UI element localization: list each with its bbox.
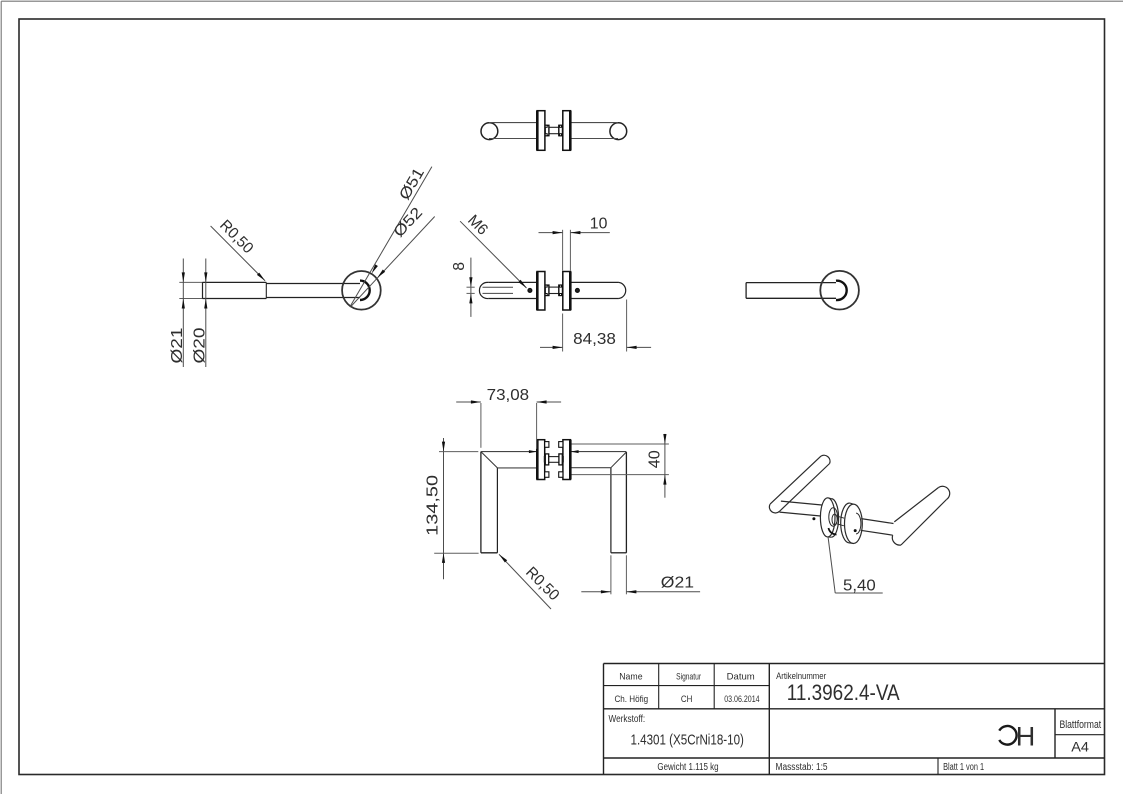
svg-text:Blatt 1 von 1: Blatt 1 von 1 [943,762,984,773]
svg-text:CH: CH [681,694,693,705]
svg-text:Ø21: Ø21 [661,575,694,592]
svg-text:Blattformat: Blattformat [1059,719,1101,731]
svg-text:Massstab: 1:5: Massstab: 1:5 [776,762,828,773]
svg-text:84,38: 84,38 [573,331,616,348]
svg-text:11.3962.4-VA: 11.3962.4-VA [787,680,900,705]
svg-text:Ø20: Ø20 [192,327,209,363]
svg-text:8: 8 [451,262,468,271]
svg-text:H: H [1016,722,1036,752]
svg-text:Gewicht 1.115 kg: Gewicht 1.115 kg [657,762,718,773]
svg-text:03.06.2014: 03.06.2014 [724,694,759,705]
svg-text:10: 10 [590,216,608,233]
svg-text:Name: Name [619,671,642,682]
svg-text:Werkstoff:: Werkstoff: [609,714,646,725]
svg-text:134,50: 134,50 [425,474,442,535]
svg-text:40: 40 [647,450,664,468]
svg-text:73,08: 73,08 [487,387,530,404]
svg-text:Ø21: Ø21 [169,328,186,364]
svg-text:1.4301 (X5CrNi18-10): 1.4301 (X5CrNi18-10) [631,731,744,748]
svg-text:5,40: 5,40 [843,578,876,595]
svg-text:Signatur: Signatur [676,671,701,682]
svg-text:Ch. Höfig: Ch. Höfig [614,694,648,705]
svg-text:A4: A4 [1071,738,1089,754]
svg-text:Datum: Datum [727,671,755,682]
